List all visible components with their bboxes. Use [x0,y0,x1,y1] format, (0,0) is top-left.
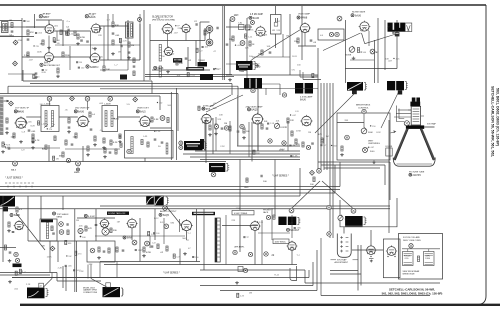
wire top-left grid [0,20,22,22]
svg-text:100: 100 [263,181,267,183]
zone 4p5mc value label 5% [248,29,249,30]
vertical gray drop video lead [237,95,239,146]
pointer diagonal to blob K [322,181,353,208]
wire top-left inter-stage [26,26,46,28]
wire hv leads [291,215,293,238]
svg-text:R-12: R-12 [69,33,74,35]
V15 cathode network [243,128,245,133]
svg-text:.047: .047 [29,60,34,62]
wire drops from sync ladder [95,209,97,241]
V11 screen cap [28,129,31,131]
CRT internal grid lines [413,108,420,110]
zone sound left value label 680 [65,240,67,244]
svg-text:8.2K: 8.2K [42,72,47,74]
zone tuner-af value label 270 [33,74,35,78]
wire audio output drops [99,262,101,278]
svg-text:1ST VIDEO IF: 1ST VIDEO IF [15,108,30,110]
pointer diagonal blob D to bundle [315,93,355,133]
ion trap label leader dashes [331,259,337,261]
svg-text:CONTR: CONTR [280,127,288,129]
focalizer photo blob L [27,288,45,299]
svg-text:22: 22 [272,254,275,257]
pot R141 with arrow [349,47,355,53]
power rails lower middle [200,269,305,271]
zone audio value label 12K [135,249,137,251]
zone tuner-af value label 560 [23,20,25,22]
terminal strip rungs [215,220,220,222]
pointer diagonal from blob B to sync tube [206,95,243,112]
grommet in X11 [345,135,350,140]
svg-text:.047: .047 [370,147,375,149]
svg-text:6BN6: 6BN6 [57,216,63,218]
trimmer arrows X1 [44,124,48,128]
CRT funnel left leg [394,129,407,160]
tube V20 audio output [182,221,192,231]
svg-text:5%: 5% [127,104,130,106]
test point diamond TP1 [13,40,18,45]
svg-text:.005: .005 [28,121,33,123]
svg-text:150: 150 [159,103,163,105]
V12 cathode resistor [75,133,77,138]
tube V8 4.5mc amp [256,27,265,36]
svg-text:100: 100 [310,184,314,186]
wire hv section [222,225,258,227]
tube V2 6AU6 label [85,15,88,18]
svg-text:L-9: L-9 [320,35,324,37]
tube V10 keyer [360,22,369,31]
yoke box mid resistor [417,256,419,262]
svg-text:1 MEG: 1 MEG [345,219,351,221]
horizontal osc transformer photo blob D [347,82,363,91]
wire 4.5mc internal links [252,56,290,58]
wire drops audio to bottom rail [131,228,133,240]
CRT bell inner bottom line [397,163,433,165]
audio stage tubes row: V19 [128,219,137,228]
svg-text:DEFL: DEFL [426,256,431,258]
waveform photo blob I right [155,196,164,206]
svg-text:ION TRAP: ION TRAP [337,259,347,262]
sound trap transformer photo blob A [236,61,253,70]
V13 load resistor [151,117,153,122]
resistor R152 screen [32,138,34,143]
phono jack parts [266,215,270,219]
resistor R103 V1 cathode [42,40,44,45]
svg-text:.005: .005 [68,265,73,267]
wire jack leads [209,33,211,40]
svg-text:22: 22 [40,286,42,288]
arrow from tuner to first IF grid [3,100,9,102]
wire 4.5mc input [226,26,252,28]
variable coil slug circle [240,41,245,46]
zone tuner-af value label 1M [76,61,78,63]
zone tuner-af value label .005 [35,32,37,34]
zone discriminator value label .05 [213,68,215,70]
tube V17 sound IF [15,221,23,229]
wire left drop to IF bus [7,86,9,93]
wire 4.5mc section bottom rail [226,74,318,76]
zone discriminator value label C-9 [196,48,198,52]
second IF transformer box X2 [102,106,118,132]
capacitor C111 [120,45,122,48]
label blocking oscillator dark tag [173,58,182,62]
svg-text:10KV INSUL: 10KV INSUL [275,241,287,243]
resistors near volume [4,245,6,250]
svg-text:.005: .005 [78,226,83,228]
V16 components below [302,142,304,147]
bus corner drops [177,94,179,132]
svg-text:2.2K: 2.2K [123,41,128,43]
wire crystal leads [275,6,277,15]
zone keyer value label 560 [361,51,362,52]
ground mid ladder [112,52,114,54]
svg-text:COIL: COIL [405,258,409,260]
svg-text:.005: .005 [115,35,120,37]
svg-text:R-31: R-31 [6,144,11,146]
svg-text:2.2K: 2.2K [26,284,31,286]
svg-text:6AU6: 6AU6 [355,14,362,17]
svg-text:100: 100 [82,237,86,239]
label on X4 [41,220,53,223]
left service column wire [388,120,390,233]
zone tuner-af value label 2.2K [119,38,121,42]
bracket right of blob J [297,216,299,218]
svg-text:6AX7: 6AX7 [43,15,50,19]
svg-text:22K: 22K [98,35,102,37]
zone brightness value label 150 [370,125,371,126]
width control photo blob G [184,141,203,150]
svg-text:47: 47 [188,248,191,250]
section divider wire between IF and sound detector columns [143,10,145,81]
svg-text:6AL5: 6AL5 [11,169,17,172]
tube V7 sound osc [165,48,173,56]
yoke connection outer box X12 [399,234,443,280]
peaking coil L30 box [239,25,245,30]
svg-text:DEFL YOKE CONN: DEFL YOKE CONN [403,240,421,242]
zone discriminator value label C-24 [187,73,189,77]
terminal box above blob L [39,283,44,288]
test point TP4 [337,16,342,21]
zone IF strip value label 680 [114,118,115,119]
svg-text:SETCHELL-CARLSON 56, 56-WR, 56: SETCHELL-CARLSON 56, 56-WR, 561, 562, [491,86,495,157]
svg-text:L-7: L-7 [323,145,327,147]
svg-text:33K: 33K [89,264,93,266]
resistor R110 ladder [112,22,114,27]
small circle jack J1 [138,18,142,22]
wire IF agc row [5,147,60,149]
pointer diagonal sound top shelf [16,213,45,250]
svg-text:3.9K: 3.9K [154,119,159,121]
wire sound rails [77,217,115,219]
wire keyer rails [345,20,347,83]
cable bundle six conductors from 4.5mc section [317,83,319,170]
resistor ladder below X2 [103,138,105,143]
svg-text:100: 100 [56,40,60,42]
wire V3 output [22,56,45,58]
tube V14 sync separator [202,114,211,123]
built-in antenna photo blob F [388,23,406,32]
svg-text:C-c: C-c [67,21,71,23]
tube V16 4.5mc lower [302,116,312,126]
zone 4p5 lower value label L-7 [320,144,322,146]
svg-text:5%: 5% [251,29,254,31]
wire volume to jack [2,238,4,262]
svg-text:6AW8: 6AW8 [301,17,308,20]
label 6AU4GT below blob J [287,228,290,231]
zone tuner-af value label 270 [33,45,34,46]
svg-text:2.2K: 2.2K [79,271,84,273]
extra cap near video det [119,135,122,137]
svg-text:FOCUS: FOCUS [404,256,411,258]
svg-text:6AL5: 6AL5 [140,111,146,114]
label loudness header bar [192,212,215,215]
trap box X7 [318,29,344,40]
svg-text:8.2K: 8.2K [113,142,118,144]
test point diamond TP5 [9,101,14,106]
grommets mid right [268,139,272,143]
capacitors inside X5 [154,138,157,140]
svg-text:* JUST SERIES *: * JUST SERIES * [5,178,23,180]
test point TP3 circle [230,17,235,22]
long verticals left audio [2,196,4,238]
zone audio value label 100 [153,232,155,234]
label 4.5 mc sound [84,214,87,217]
section divider at 4.5mc column [246,18,248,78]
slug circle above blob K [351,208,356,213]
svg-text:C2: C2 [194,21,198,23]
svg-text:10K: 10K [219,115,223,117]
V23 cathode marks and ground [370,256,371,257]
svg-text:470K: 470K [17,40,23,42]
svg-text:8.2K: 8.2K [30,125,35,127]
svg-text:1M: 1M [326,136,329,138]
wire 4.5mc right rail [289,14,291,75]
capacitor C105 on feedback run [35,72,38,74]
yoke lead line to right [424,126,434,128]
white curve in blob L [28,291,39,297]
svg-text:4.5MC TRANS: 4.5MC TRANS [234,212,248,215]
svg-text:1K: 1K [252,44,255,46]
svg-text:YOKE: YOKE [425,258,431,260]
svg-text:L-7: L-7 [114,65,118,67]
test point TP11 on sync bus [76,161,81,166]
svg-text:.047: .047 [388,61,393,63]
svg-text:1W: 1W [395,32,398,34]
wire mid ladder rails [107,14,109,60]
wire keyer bottom box [345,68,397,70]
white slash in blob D [348,83,362,90]
svg-text:270: 270 [36,77,40,79]
svg-text:.02: .02 [160,252,164,254]
svg-text:6AU6: 6AU6 [300,98,306,101]
resistor in X11 [341,146,343,151]
yoke box circle [409,244,413,248]
bracket right of blob L [46,288,48,290]
bracket right of blob M [121,287,123,289]
pointer diagonal audio takeoff [166,206,186,231]
svg-text:R-12: R-12 [364,148,369,150]
CRT deflection yoke black band [406,125,424,128]
grommet circle on keyer output [370,49,375,54]
coils inside X2 [105,111,107,127]
wire agc return top [240,88,318,90]
svg-text:.02: .02 [188,60,192,62]
svg-text:47: 47 [187,240,190,242]
zone sound left value label 270 [15,271,17,275]
zone hv value label TP [243,236,245,238]
slug circle below blob B [251,88,255,92]
tp circle row under sync tubes [214,124,218,128]
coupling capacitor C104 [67,29,69,32]
hv insulation label box [273,239,289,244]
svg-text:TP: TP [246,237,249,239]
wire top-left lower links [55,44,140,46]
svg-text:C-c: C-c [297,255,301,257]
capacitor on uhf series line [260,175,262,178]
test point diamond TP9b [133,97,138,102]
svg-text:L-7: L-7 [107,20,111,22]
resistor R130 [232,36,234,41]
V15 screen components [261,124,263,129]
svg-text:1W: 1W [56,159,59,161]
gray base under blob K [345,226,363,228]
zone sync video value label .047 [290,114,291,115]
wire bottom mid verticals [225,215,227,265]
wires damper verticals [357,245,359,291]
slug circle below blob H [211,172,216,177]
svg-text:CONNECTIONS: CONNECTIONS [83,292,98,294]
CRT electrode side ticks [408,109,411,111]
tube V11 first video IF [16,118,26,128]
svg-text:BRIGHTNESS: BRIGHTNESS [356,105,371,107]
ion trap sleeve vase outline [337,234,351,258]
small dark inductor at x=200 [200,139,204,149]
resistor R131 [249,41,251,46]
zone audio value label C-24 [148,231,150,235]
svg-text:680: 680 [171,223,175,225]
audio coupling parts [116,247,118,252]
section divider wire video detector column [170,92,172,160]
corner turns bundle bottom [304,270,306,283]
white curve inside blob N [1,197,15,206]
svg-text:.05: .05 [65,110,69,112]
test point circle left of V20 [164,224,169,229]
svg-text:2.2K: 2.2K [259,222,264,224]
peaking coil inside X5 [131,137,133,154]
zone keyer value label .005 [393,58,394,59]
mount square below blob D [352,90,357,94]
svg-text:150: 150 [372,126,376,128]
svg-text:6AQ5: 6AQ5 [163,214,170,217]
white arc in blob I left [147,197,154,204]
test point TP6 above X1 [47,97,52,102]
zone audio value label C-9 [173,254,175,258]
grommet circle right of V13 [160,116,165,121]
brightness TP circle [362,109,366,113]
tube V12 second video IF [78,116,88,126]
sync ladder wire E [100,205,390,207]
zone tuner-af value label 150 [78,66,80,68]
trimmer circles inside X7 [329,32,333,36]
svg-text:.005: .005 [99,57,104,59]
svg-text:GND: GND [244,187,249,189]
wire sound section bottom pair [145,74,232,76]
resistor R160 [167,118,169,123]
svg-text:R-40: R-40 [370,151,375,153]
svg-text:22K: 22K [178,28,182,30]
left margin components below tuner bar [2,142,4,147]
wire ion trap leads [343,227,345,234]
zone sound left value label .005 [65,264,67,266]
svg-text:C4: C4 [66,27,70,29]
tube V9 6AW8 video amp [301,24,310,33]
bundle corner verticals at fan [389,162,391,200]
white legend inside blob A [238,64,250,65]
zone discriminator value label 10K [201,45,203,47]
svg-text:270: 270 [49,129,53,131]
svg-text:22K: 22K [231,220,235,222]
svg-text:.047: .047 [292,115,297,117]
svg-text:.05: .05 [12,136,16,138]
resistor R106 [62,52,64,57]
wire audio inner links [95,235,185,237]
grounds under V1 V2 stages [48,46,50,48]
wire V1 cathode resistor leg [48,36,50,53]
V17 grid parts [8,222,10,227]
antenna rabbit-ear glyph in legend [407,25,411,31]
svg-text:.001: .001 [14,288,19,290]
speaker wire corners [56,273,58,282]
speaker photo blob M [103,287,121,297]
pointer diagonal to blob J [292,181,320,208]
svg-text:C-9: C-9 [21,149,25,151]
resistor R132 lower [261,50,263,55]
grommet on bundle upper [327,205,331,209]
svg-text:SLOPE DETECTOR: SLOPE DETECTOR [152,17,173,19]
sound tp circle [78,228,83,233]
svg-text:100: 100 [297,65,301,67]
volume control black label [13,264,22,268]
V12 grid RC [68,118,70,123]
svg-text:.005: .005 [38,33,43,35]
svg-text:6AX7: 6AX7 [44,61,51,64]
svg-text:R-31: R-31 [247,18,252,20]
vert osc transformer photo blob J [278,217,286,225]
sync ladder wire C [0,192,335,194]
corner drops for feedback runs [151,81,153,94]
svg-text:1.5K: 1.5K [293,156,298,158]
section divider wire pair left of 4.5mc amplifier section [222,6,224,80]
right tone column parts [133,58,135,63]
antenna input terminal box [2,22,9,33]
tube V1 6AX7 AF amp [45,25,54,34]
contrast pot [274,123,279,128]
zone 4p5mc value label C-24 [245,34,247,38]
page border right rule [478,5,486,305]
IF AGC bus lower [0,95,160,97]
crystal element inside X6 [275,18,277,22]
svg-text:CENTERING: CENTERING [368,143,380,145]
resistor R165 [287,118,289,123]
svg-text:150: 150 [81,67,85,69]
svg-text:2ND VIDEO IF: 2ND VIDEO IF [75,108,90,110]
svg-text:47K: 47K [30,32,34,34]
zone tuner-af value label TP [42,69,44,71]
svg-text:1W: 1W [118,52,122,54]
CRT socket lead wires from left [398,109,411,111]
V20 shield bracket [179,219,181,232]
svg-text:21ATP4: 21ATP4 [413,174,422,177]
svg-text:6AU6: 6AU6 [253,17,260,20]
